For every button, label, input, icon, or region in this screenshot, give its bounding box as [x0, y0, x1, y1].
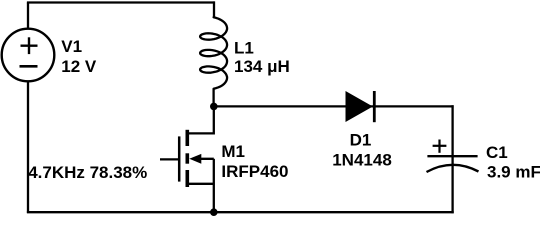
svg-text:12 V: 12 V — [61, 57, 97, 76]
M1 channel top segment — [186, 130, 190, 146]
capacitor C1 top plate — [427, 155, 477, 157]
C1 polarity plus sign — [433, 145, 447, 147]
wire left lower (V1 minus terminal to bottom wire) — [27, 81, 29, 213]
svg-text:M1: M1 — [221, 142, 245, 161]
capacitor C1 bottom curved plate — [427, 165, 479, 172]
M1 channel middle segment — [186, 153, 190, 163]
M1 drain stub — [187, 132, 214, 134]
svg-text:134 μH: 134 μH — [234, 57, 290, 76]
L1 bottom lead — [212, 89, 214, 106]
svg-text:3.9 mF: 3.9 mF — [487, 162, 540, 181]
M1 gate bar — [178, 136, 181, 181]
wire middle (node A to D1 to C1 branch) — [214, 105, 454, 107]
L1 top lead — [213, 1, 215, 18]
wire left upper (top wire to V1 plus terminal) — [27, 3, 29, 30]
svg-text:IRFP460: IRFP460 — [221, 162, 288, 181]
node B (M1 source / bottom wire junction) — [210, 208, 218, 216]
svg-text:4.7KHz 78.38%: 4.7KHz 78.38% — [28, 163, 147, 182]
wire right branch (through C1 to bottom) — [451, 105, 453, 213]
M1 body arrow — [189, 154, 201, 164]
diode D1 anode triangle — [346, 92, 372, 121]
V1 plus sign — [21, 45, 38, 47]
M1 gate lead wire — [160, 158, 178, 160]
V1 minus sign — [20, 65, 38, 68]
wire bottom (ground return) — [27, 211, 454, 213]
svg-text:L1: L1 — [234, 39, 254, 58]
voltage source V1 — [2, 29, 55, 82]
node A (L1 / M1 drain / D1 junction) — [210, 103, 218, 111]
wire top (V1 to L1) — [27, 1, 215, 3]
inductor L1 coil — [200, 17, 227, 88]
M1 body stub with arrow — [196, 158, 214, 160]
svg-text:V1: V1 — [61, 37, 82, 56]
M1 drain vertical to node A — [213, 106, 215, 134]
M1 source/body vertical to node B — [213, 159, 215, 212]
svg-text:D1: D1 — [350, 130, 372, 149]
svg-text:C1: C1 — [486, 143, 508, 162]
diode D1 cathode bar — [373, 91, 376, 122]
svg-text:1N4148: 1N4148 — [332, 150, 392, 169]
M1 channel bottom segment — [186, 170, 190, 187]
M1 source stub — [187, 183, 214, 185]
